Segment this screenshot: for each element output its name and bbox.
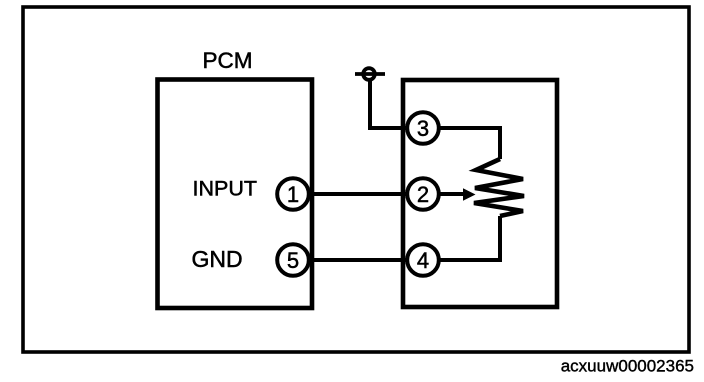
svg-text:3: 3: [417, 116, 429, 141]
svg-text:INPUT: INPUT: [193, 177, 258, 201]
svg-text:acxuuw00002365: acxuuw00002365: [561, 357, 694, 376]
svg-text:2: 2: [417, 182, 429, 207]
svg-text:GND: GND: [192, 246, 243, 272]
svg-text:5: 5: [287, 248, 299, 273]
svg-text:4: 4: [417, 248, 429, 273]
svg-text:1: 1: [287, 182, 299, 207]
svg-text:PCM: PCM: [203, 48, 253, 73]
